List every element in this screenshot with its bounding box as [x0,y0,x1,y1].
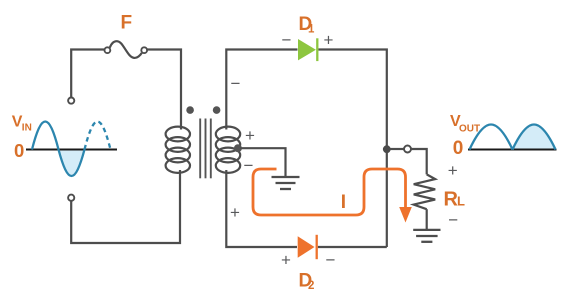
VOUT axis [468,149,557,151]
wire: fuse to primary winding [147,50,181,130]
label RL [444,189,466,211]
wire: secondary top to D1 anode [226,50,297,130]
VOUT rectified hump 2 [513,125,556,150]
label D2 [299,271,315,293]
wire: D1 cathode right and down (right rail) [319,50,387,248]
svg-text:+: + [448,161,458,180]
wire: center tap to ground [240,148,286,176]
VIN sine wave (dashed half-cycle) [85,122,111,150]
VOUT rectified hump 1 [470,125,513,150]
wire: terminal A up and right to fuse [71,50,104,98]
current path I (orange highlight) [253,169,406,215]
svg-text:IN: IN [22,123,32,134]
transformer T1 secondary winding (center-tapped) [216,127,240,173]
phase dot (secondary) [213,106,221,114]
wire: resistor RL to ground [426,209,428,230]
resistor RL (zigzag) [414,174,436,209]
svg-text:0: 0 [453,138,464,159]
fuse F [105,41,148,58]
wire: output terminal to resistor RL [411,149,426,174]
current path arrowhead [399,207,412,223]
phase dot (primary) [186,106,194,114]
label VIN [12,114,32,134]
svg-text:−: − [231,74,241,93]
transformer T1 primary winding [166,127,190,173]
label D1 [299,14,316,36]
svg-text:−: − [326,251,336,270]
ground (load) [413,230,440,242]
svg-text:+: + [245,126,255,145]
svg-text:0: 0 [14,140,24,161]
terminal B (open circle, lower left input) [68,195,74,201]
wire: terminal B down, right, up to primary winding [71,170,180,243]
label VOUT [450,113,480,134]
svg-text:1: 1 [308,24,315,36]
svg-text:+: + [230,203,240,222]
svg-text:−: − [282,31,292,50]
svg-text:L: L [457,194,465,209]
svg-text:+: + [324,31,334,50]
center tap junction dot [234,144,242,152]
svg-text:I: I [341,192,346,213]
junction dot on right rail (output node) [383,145,391,153]
svg-text:2: 2 [308,280,314,292]
svg-text:−: − [448,211,458,230]
wire: secondary bottom to D2 anode [226,170,297,247]
svg-text:OUT: OUT [459,124,480,135]
VIN axis [26,149,117,151]
wire: junction to output terminal [390,148,404,150]
transformer T1 core [200,119,211,179]
diode D2 (orange) [298,235,317,259]
output terminal (open circle) [404,146,411,153]
wire: D2 cathode to right rail [318,246,387,248]
svg-text:F: F [121,13,133,34]
svg-text:+: + [281,251,291,270]
VOUT second hump fill [513,125,556,150]
diode D1 (green) [298,38,317,61]
terminal A (open circle, top left input) [68,98,74,104]
ground (center tap) [272,177,300,189]
VIN sine wave (solid cycle) [32,122,85,176]
VIN negative half-cycle fill [59,150,85,176]
svg-text:−: − [244,156,254,175]
